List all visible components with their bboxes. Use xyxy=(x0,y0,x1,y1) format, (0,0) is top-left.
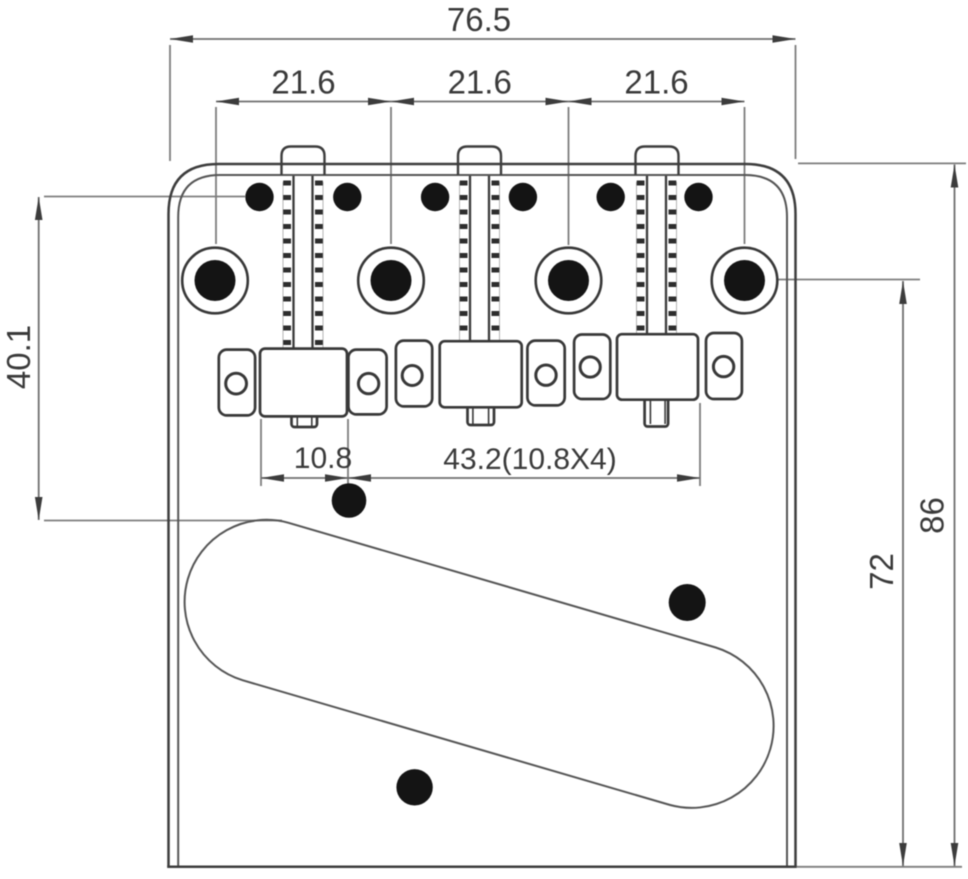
svg-text:43.2(10.8X4): 43.2(10.8X4) xyxy=(443,443,616,476)
svg-text:21.6: 21.6 xyxy=(624,64,688,101)
svg-text:21.6: 21.6 xyxy=(271,64,335,101)
svg-text:76.5: 76.5 xyxy=(447,1,511,38)
svg-text:21.6: 21.6 xyxy=(448,64,512,101)
svg-text:72: 72 xyxy=(863,553,900,590)
svg-text:10.8: 10.8 xyxy=(294,442,352,475)
svg-text:40.1: 40.1 xyxy=(0,325,37,389)
svg-text:86: 86 xyxy=(914,497,951,534)
